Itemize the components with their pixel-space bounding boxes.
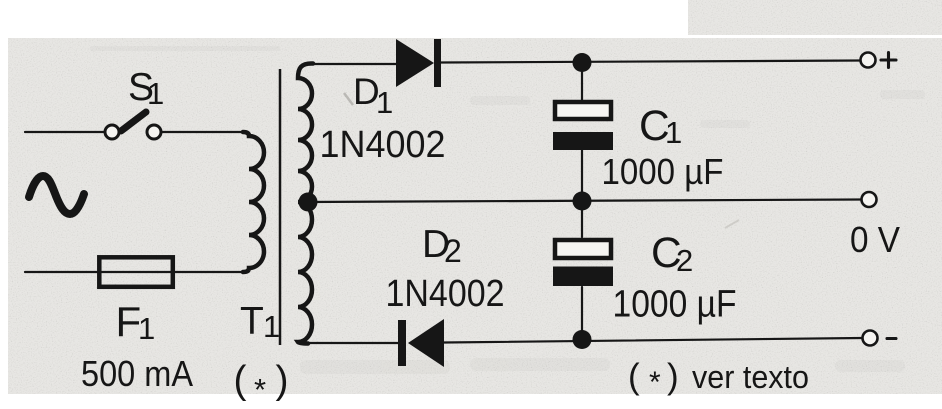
svg-text:1: 1	[138, 311, 155, 346]
svg-text:): )	[276, 359, 289, 402]
svg-text:1N4002: 1N4002	[320, 124, 446, 166]
svg-text:1: 1	[376, 85, 393, 120]
svg-text:(: (	[628, 357, 640, 396]
svg-text:*: *	[649, 366, 661, 399]
svg-text:500 mA: 500 mA	[81, 353, 193, 394]
svg-text:T: T	[240, 300, 264, 343]
svg-text:1: 1	[263, 309, 280, 344]
svg-text:1: 1	[147, 76, 164, 111]
svg-text:2: 2	[676, 243, 693, 278]
svg-text:1000 µF: 1000 µF	[602, 151, 724, 192]
svg-text:1: 1	[665, 115, 682, 150]
svg-text:0 V: 0 V	[850, 219, 900, 260]
svg-text:*: *	[254, 372, 266, 407]
svg-text:1000 µF: 1000 µF	[613, 284, 737, 326]
svg-text:): )	[667, 357, 679, 396]
svg-text:(: (	[234, 359, 247, 402]
svg-text:2: 2	[444, 233, 462, 269]
svg-text:ver texto: ver texto	[692, 359, 809, 395]
svg-text:1N4002: 1N4002	[386, 273, 505, 315]
